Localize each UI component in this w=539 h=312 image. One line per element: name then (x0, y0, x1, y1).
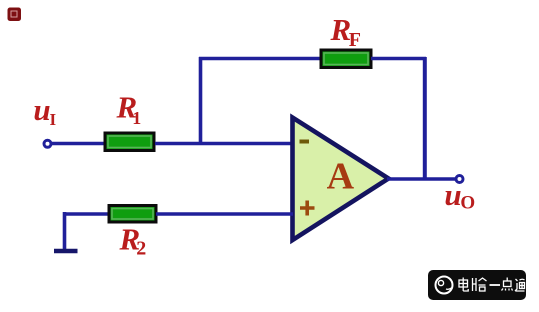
svg-text:A: A (327, 156, 355, 198)
ground (54, 212, 78, 251)
label R1 (116, 90, 142, 129)
svg-text:I: I (50, 110, 57, 129)
node uQ output terminal (456, 176, 463, 183)
svg-text:u: u (33, 92, 50, 127)
op-amp inverting input minus sign (300, 140, 310, 144)
op-amp non-inverting input plus sign (300, 201, 315, 216)
op-amp A triangle (293, 118, 389, 241)
watermark text 电 (459, 278, 468, 292)
node uI input terminal (44, 140, 51, 147)
svg-text:F: F (349, 29, 361, 51)
svg-text:O: O (460, 193, 475, 214)
label R2 (119, 222, 147, 260)
corner icon top-left (8, 8, 22, 22)
watermark text 点 (502, 278, 513, 291)
wire R2 to op-amp non-inverting input (156, 212, 293, 216)
wire R1 to op-amp inverting input (155, 142, 293, 146)
watermark text 通 (515, 279, 525, 291)
watermark text 路 (473, 278, 487, 291)
wire op-amp output to output terminal (387, 177, 456, 181)
svg-text:1: 1 (132, 108, 141, 128)
resistor R2 (109, 206, 156, 223)
label uQ (444, 177, 475, 214)
label RF (330, 12, 362, 51)
wire input terminal to R1 (52, 142, 107, 146)
wire ground to R2 (63, 212, 110, 216)
wire feedback vertical right down to output rail (423, 57, 427, 181)
wire feedback vertical left (junction on input wire up to top rail) (199, 57, 203, 145)
svg-text:u: u (444, 177, 461, 212)
watermark logo (436, 277, 453, 294)
wire feedback top rail right of RF (371, 57, 426, 61)
watermark text 一 (490, 284, 501, 286)
svg-text:2: 2 (136, 238, 146, 260)
resistor R1 (105, 133, 154, 151)
wire feedback top rail left of RF (199, 57, 321, 61)
watermark box (428, 270, 526, 300)
resistor RF (321, 50, 371, 68)
label uI (33, 92, 56, 129)
